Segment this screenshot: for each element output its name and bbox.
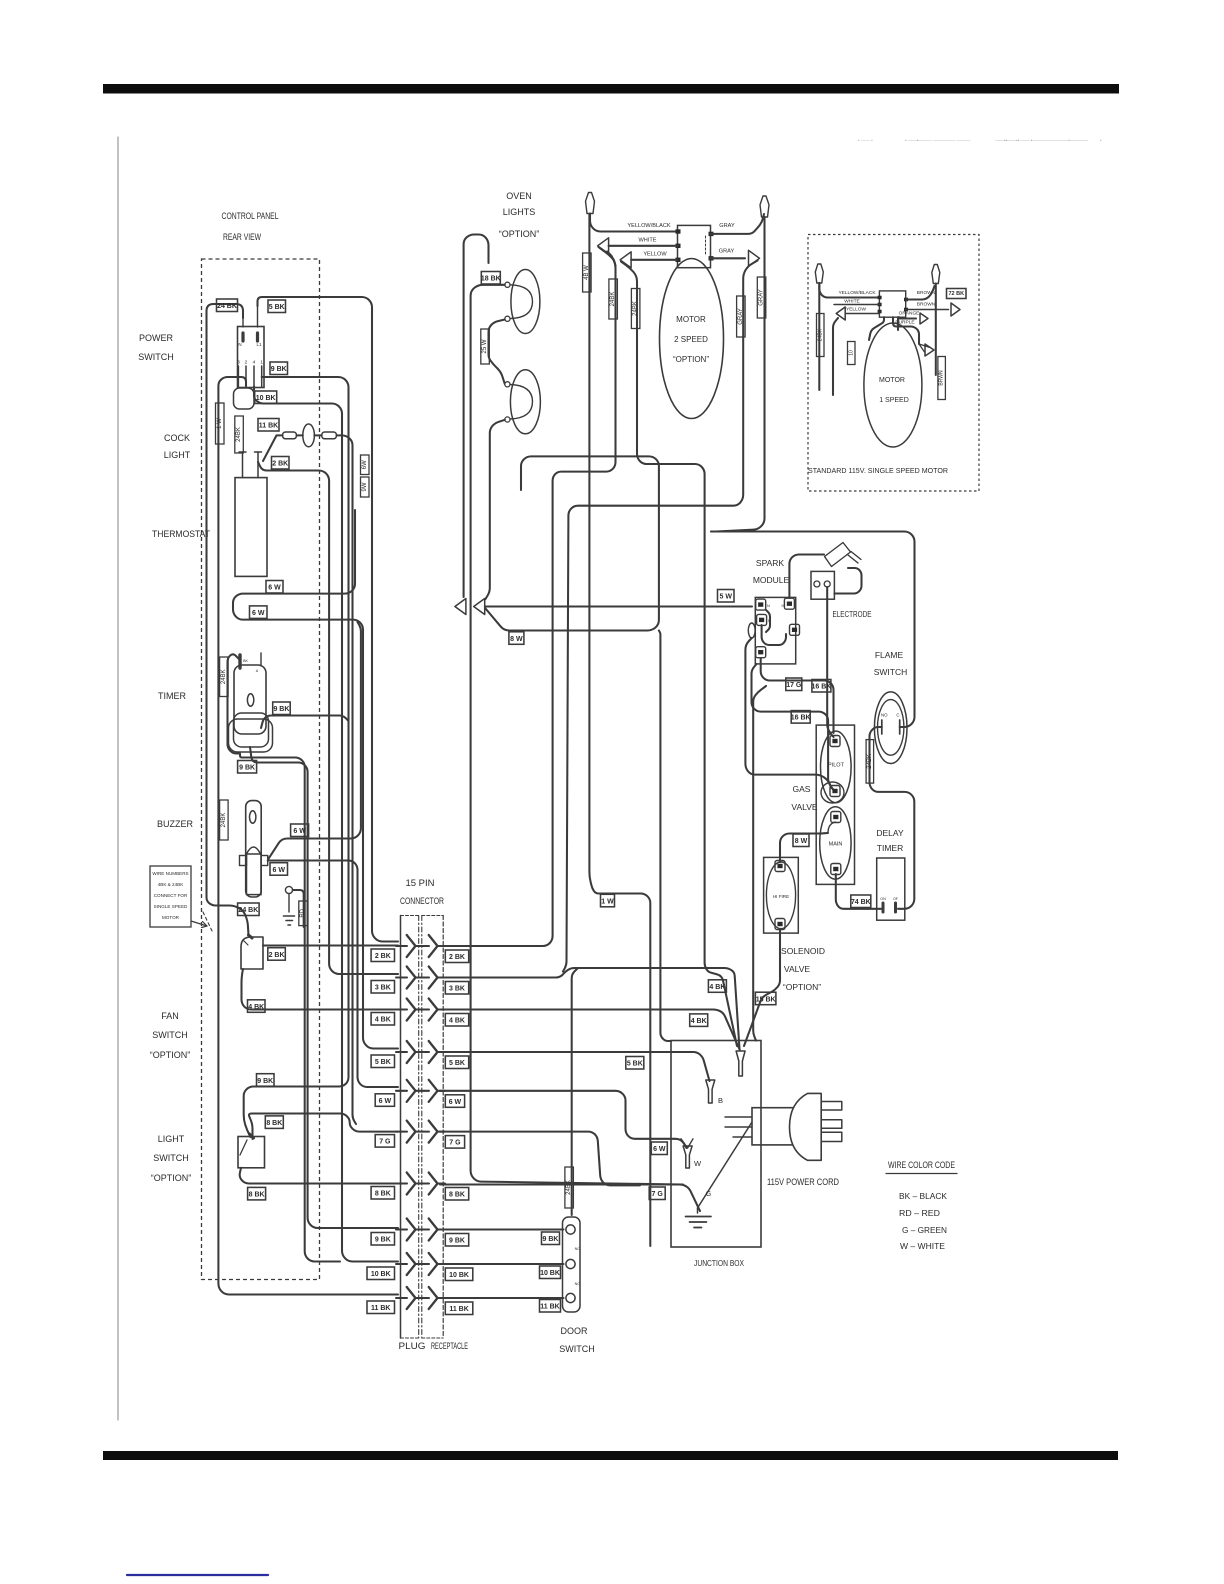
svg-text:1 W: 1 W — [217, 418, 223, 429]
electrode bracket — [834, 568, 861, 594]
label 74 BK — [851, 895, 871, 908]
connector arrow right — [474, 599, 485, 615]
wire 11BK recept — [440, 1297, 564, 1299]
electrode contacts — [814, 581, 830, 587]
svg-text:10 BK: 10 BK — [449, 1272, 469, 1279]
text BROWN m1 b — [917, 302, 936, 308]
plug body — [790, 1093, 822, 1160]
svg-text:11 BK: 11 BK — [371, 1305, 390, 1312]
svg-text:MOTOR: MOTOR — [676, 315, 706, 324]
text MOTOR 1 SPEED — [879, 377, 909, 404]
note box wire numbers 4BK and 24BK — [150, 866, 207, 928]
svg-text:7 G: 7 G — [379, 1139, 391, 1146]
label 17 G — [786, 678, 802, 691]
wire 3BK recept — [440, 968, 740, 1049]
connector arrow brown2 — [951, 303, 960, 316]
svg-text:L1: L1 — [256, 342, 262, 347]
buzzer lower body — [247, 854, 262, 895]
thermostat pin stubs — [239, 452, 262, 478]
text SPARK MODULE — [753, 558, 790, 585]
svg-text:FLAME: FLAME — [875, 650, 904, 660]
svg-text:BRWN: BRWN — [939, 370, 945, 386]
svg-text:10 BK: 10 BK — [256, 395, 276, 402]
svg-text:6 W: 6 W — [379, 1098, 392, 1105]
wire 11BK bus — [218, 377, 398, 1295]
wire yellow — [631, 259, 677, 261]
svg-text:2 BK: 2 BK — [272, 461, 288, 468]
wire spark left loop — [745, 638, 831, 788]
svg-text:9 BK: 9 BK — [239, 765, 255, 772]
motor1 terminals — [878, 296, 908, 314]
vlabel yellow drop — [631, 289, 640, 329]
delay timer pins — [880, 897, 898, 912]
svg-text:OVEN: OVEN — [506, 191, 532, 201]
text 115V POWER CORD — [767, 1177, 839, 1187]
svg-text:NO: NO — [881, 713, 888, 718]
cook light fuse left — [283, 432, 297, 439]
text GRAY top — [719, 223, 735, 229]
wire 9BK bus — [244, 377, 349, 1137]
svg-text:5 W: 5 W — [720, 594, 733, 601]
wire 9BK timer — [261, 716, 349, 729]
text YELLOW m1 — [846, 307, 866, 313]
vlabel cap gray — [757, 277, 766, 318]
svg-text:4 BK: 4 BK — [248, 1004, 264, 1011]
vlabel RD ground — [299, 901, 308, 926]
text BK BLACK — [899, 1191, 947, 1201]
ground lug wire — [293, 890, 304, 927]
plug prongs — [821, 1102, 842, 1142]
svg-text:7 G: 7 G — [449, 1140, 461, 1147]
wire white m1 — [834, 304, 879, 306]
connector arrow yellow — [620, 252, 631, 268]
svg-text:24BK: 24BK — [867, 754, 873, 769]
wire 6W thermostat — [233, 510, 398, 1049]
svg-text:VALVE: VALVE — [791, 802, 817, 812]
wire 8BK recept ground — [440, 1185, 700, 1212]
svg-text:24BK: 24BK — [236, 427, 242, 442]
ground symbol junction — [686, 1208, 712, 1228]
vlabel 24BK buzzer — [220, 800, 229, 840]
connector arrow orange — [920, 313, 928, 324]
wire yb m1 — [819, 283, 879, 298]
wire purple — [893, 317, 919, 344]
svg-text:15 PIN: 15 PIN — [405, 878, 434, 889]
motor2 inner dashed — [705, 236, 707, 256]
wire brown1 — [906, 286, 935, 300]
svg-text:8 W: 8 W — [510, 636, 523, 643]
pilot overlap coil — [821, 782, 844, 803]
svg-text:2 BK: 2 BK — [375, 953, 391, 960]
svg-text:GRAY: GRAY — [738, 308, 744, 325]
motor1 box leads — [869, 317, 898, 340]
wire white — [609, 245, 678, 247]
thermostat body — [235, 478, 267, 577]
wire timer bus D — [240, 754, 340, 1262]
svg-text:GRAY: GRAY — [759, 289, 765, 306]
buzzer tab left — [240, 856, 247, 866]
wire yellow m1 — [833, 314, 879, 396]
label 16 BK b — [791, 711, 811, 724]
label 6 W b — [250, 606, 268, 619]
label 18 BK — [481, 272, 501, 285]
svg-text:MOTOR: MOTOR — [162, 915, 180, 920]
svg-text:BROWN: BROWN — [917, 302, 936, 308]
fan switch body — [241, 937, 263, 969]
text FAN SWITCH OPTION — [150, 1011, 191, 1060]
timer knob — [247, 694, 253, 706]
text YELLOW — [643, 252, 667, 258]
spark terminal 4 — [782, 598, 795, 609]
cap connector m1 left — [815, 264, 823, 283]
wire W V-join — [681, 1139, 693, 1148]
connector pin chevrons — [407, 935, 438, 1309]
motor2 junction box — [678, 225, 711, 267]
text DELAY TIMER — [876, 828, 904, 853]
label 9 BK tray — [238, 761, 257, 774]
label 9 BK power — [270, 362, 288, 375]
main terminal top — [831, 812, 841, 823]
svg-text:ORANGE: ORANGE — [899, 311, 920, 317]
control panel dashed outline — [202, 259, 320, 1280]
svg-text:24BK: 24BK — [817, 328, 823, 341]
door switch contacts — [566, 1225, 580, 1303]
svg-text:N: N — [238, 342, 241, 347]
svg-text:2 BK: 2 BK — [449, 954, 465, 961]
hfire box — [764, 857, 799, 933]
motor2 terminals — [676, 229, 714, 262]
svg-text:1 SPEED: 1 SPEED — [879, 397, 909, 404]
svg-text:MAIN: MAIN — [829, 842, 843, 848]
svg-text:RECEPTACLE: RECEPTACLE — [431, 1341, 468, 1351]
wire spark HT — [789, 555, 824, 599]
timer tray outer — [229, 719, 273, 752]
wire gray bottom — [710, 257, 745, 259]
pilot terminal top — [830, 736, 840, 747]
lamp2 bottom wire — [486, 420, 505, 599]
svg-text:6 W: 6 W — [653, 1146, 666, 1153]
svg-text:COCK: COCK — [164, 433, 190, 443]
wire 74BK — [836, 874, 881, 909]
svg-text:6 W: 6 W — [252, 610, 265, 617]
svg-text:4BK & 24BK: 4BK & 24BK — [158, 882, 184, 887]
spark internal wires — [762, 610, 786, 645]
wire flame NO — [870, 727, 915, 909]
label 4 BK junc a — [708, 980, 726, 993]
connector arrow gray — [749, 250, 760, 266]
text PURPLE — [895, 320, 914, 326]
hfire terminal top — [775, 861, 785, 872]
label 1W mid — [601, 894, 615, 907]
wire white drop — [599, 247, 616, 266]
text WIRE COLOR CODE — [886, 1160, 957, 1174]
svg-text:B: B — [718, 1096, 723, 1105]
text JUNCTION BOX — [694, 1258, 744, 1268]
buzzer tab right — [261, 856, 268, 866]
svg-text:4 BK: 4 BK — [691, 1018, 707, 1025]
ground symbol fan — [284, 894, 295, 926]
svg-text:GAS: GAS — [793, 784, 811, 794]
svg-text:BK – BLACK: BK – BLACK — [899, 1191, 947, 1201]
svg-text:15 BK: 15 BK — [756, 996, 776, 1003]
svg-text:LIGHT: LIGHT — [164, 450, 191, 460]
text COCK LIGHT — [164, 433, 191, 460]
timer body — [234, 665, 266, 734]
svg-text:YELLOW/BLACK: YELLOW/BLACK — [838, 290, 876, 296]
flame switch outer — [874, 692, 907, 764]
svg-text:PLUG: PLUG — [399, 1341, 426, 1351]
lamp1 to lamp2 wire — [481, 320, 505, 385]
svg-text:24BK: 24BK — [221, 669, 227, 684]
hfire coil — [766, 862, 795, 929]
svg-text:17 G: 17 G — [786, 682, 802, 689]
svg-text:G: G — [706, 1191, 711, 1198]
svg-text:SOLENOID: SOLENOID — [781, 946, 825, 956]
flame switch poles — [882, 720, 900, 734]
connector arrow purple dn — [919, 344, 934, 356]
svg-text:• ——•——— ————— ———: • ——•——— ————— ——— — [905, 138, 971, 143]
svg-text:SINGLE SPEED: SINGLE SPEED — [154, 904, 188, 909]
vlabel 1 W — [216, 403, 225, 444]
svg-text:N: N — [767, 603, 770, 608]
text WHITE m1 — [844, 299, 859, 305]
svg-text:TIMER: TIMER — [158, 691, 186, 701]
wire 4BK recept — [440, 1010, 740, 1051]
wire brown2 — [906, 309, 949, 311]
vlabel flame — [866, 740, 874, 784]
svg-text:WIRE COLOR CODE: WIRE COLOR CODE — [888, 1160, 955, 1170]
svg-text:6 W: 6 W — [449, 1099, 462, 1106]
motor1 ellipse — [864, 323, 922, 447]
svg-text:9W: 9W — [362, 482, 368, 491]
svg-text:10 BK: 10 BK — [540, 1270, 560, 1277]
svg-text:VALVE: VALVE — [784, 964, 810, 974]
vlabel 24BK timer — [220, 657, 229, 697]
oven loop outer — [464, 235, 489, 598]
hfire terminal bottom — [775, 919, 785, 930]
text LIGHT SWITCH OPTION — [151, 1134, 192, 1183]
svg-text:WIRE NUMBERS: WIRE NUMBERS — [152, 871, 188, 876]
cord barrel — [752, 1108, 798, 1145]
vlabel gray drop — [737, 296, 746, 337]
svg-text:“OPTION”: “OPTION” — [673, 355, 709, 364]
wire yellow drop — [621, 262, 737, 1047]
svg-text:2: 2 — [245, 360, 248, 366]
terminal W bullet — [683, 1146, 702, 1168]
vlabel door BK — [565, 1167, 574, 1208]
label 7 G junc — [649, 1187, 665, 1200]
svg-text:3: 3 — [237, 360, 240, 366]
connector row labels — [367, 949, 473, 1315]
cook light wiring — [263, 435, 322, 461]
svg-text:BK: BK — [243, 659, 248, 663]
text W WHITE — [900, 1241, 945, 1251]
page top rule — [103, 84, 1119, 94]
power switch pin L1 — [256, 306, 262, 347]
label 4 BK fan — [248, 1000, 266, 1013]
electrode box — [811, 571, 834, 599]
junction box — [671, 1041, 761, 1248]
svg-text:CONTROL PANEL: CONTROL PANEL — [222, 211, 279, 221]
page left margin line — [117, 137, 119, 1420]
connector receptacle column — [422, 916, 443, 1339]
wire cap m1 drop — [818, 283, 820, 390]
svg-text:REAR VIEW: REAR VIEW — [223, 232, 261, 242]
wire 15BK — [744, 930, 780, 1046]
wire 10BK bus — [254, 387, 398, 1262]
connector row stubs — [396, 946, 445, 1298]
svg-text:SPARK: SPARK — [756, 558, 785, 568]
label 8 BK light — [265, 1116, 283, 1129]
text WHITE — [638, 238, 656, 244]
svg-text:RD – RED: RD – RED — [899, 1208, 940, 1218]
svg-text:“OPTION”: “OPTION” — [783, 982, 821, 992]
svg-text:DELAY: DELAY — [876, 828, 904, 838]
svg-text:5 BK: 5 BK — [269, 304, 285, 311]
svg-text:LIGHTS: LIGHTS — [503, 207, 536, 217]
wire 17G bus down — [753, 686, 766, 1041]
svg-text:8 BK: 8 BK — [375, 1191, 391, 1198]
cap connector gray — [760, 196, 769, 217]
svg-text:16 BK: 16 BK — [791, 715, 811, 722]
svg-text:H: H — [782, 603, 785, 608]
label 9 BK light sw — [257, 1074, 275, 1087]
svg-text:4 BK: 4 BK — [375, 1017, 391, 1024]
svg-text:• —— •: • —— • — [858, 138, 873, 143]
power switch pins 3 2 4 1 — [237, 360, 263, 387]
light switch body — [238, 1137, 265, 1168]
svg-text:CONNECTOR: CONNECTOR — [400, 896, 444, 907]
label 15 BK — [755, 992, 776, 1005]
svg-text:1: 1 — [260, 360, 263, 366]
buzzer body — [246, 801, 262, 897]
svg-text:G – GREEN: G – GREEN — [902, 1225, 947, 1235]
svg-text:YELLOW/BLACK: YELLOW/BLACK — [627, 223, 670, 229]
text SOLENOID VALVE OPTION — [781, 946, 825, 992]
svg-text:STANDARD 115V. SINGLE SPEED MO: STANDARD 115V. SINGLE SPEED MOTOR — [808, 466, 949, 475]
connector arrow white — [598, 238, 609, 254]
svg-text:WHITE: WHITE — [638, 238, 656, 244]
power switch pin N — [238, 318, 243, 347]
vlabel m1 mid — [848, 342, 856, 365]
svg-text:8 BK: 8 BK — [249, 1192, 265, 1199]
text POWER SWITCH — [138, 333, 174, 362]
svg-text:8 BK: 8 BK — [449, 1192, 465, 1199]
svg-text:6 W: 6 W — [273, 867, 286, 874]
motor2 lead left — [589, 214, 650, 1246]
svg-text:9 BK: 9 BK — [375, 1237, 391, 1244]
cook light fuse right — [322, 432, 337, 439]
svg-text:11 BK: 11 BK — [540, 1304, 559, 1311]
text MOTOR 2 SPEED OPTION — [673, 315, 709, 364]
label 5 W — [718, 590, 735, 603]
svg-text:2 SPEED: 2 SPEED — [674, 335, 708, 344]
text RD RED — [899, 1208, 940, 1218]
svg-text:24 BK: 24 BK — [217, 303, 237, 310]
svg-text:18 BK: 18 BK — [481, 276, 501, 283]
svg-text:POWER: POWER — [139, 333, 174, 343]
svg-text:9 BK: 9 BK — [449, 1238, 465, 1245]
svg-text:11 BK: 11 BK — [449, 1306, 468, 1313]
text BUZZER — [157, 819, 194, 829]
svg-text:HI FIRE: HI FIRE — [773, 894, 789, 899]
svg-text:3 BK: 3 BK — [449, 986, 465, 993]
timer tray inner — [234, 713, 269, 747]
svg-text:CONNECT FOR: CONNECT FOR — [154, 893, 188, 898]
wire 3BK cook light — [337, 435, 357, 1124]
wire yellow black — [590, 214, 679, 232]
label 24 BK — [217, 299, 238, 312]
label 8 W — [509, 632, 524, 645]
spark terminal 2 — [757, 614, 772, 625]
standard box dashed — [808, 235, 979, 492]
svg-text:6 W: 6 W — [268, 585, 281, 592]
wire 18BK lamp — [471, 285, 683, 1185]
wire 16BK second — [752, 664, 834, 790]
gas valve box — [816, 725, 854, 884]
svg-text:8 BK: 8 BK — [266, 1120, 282, 1127]
vlabel 6 W pair — [361, 455, 370, 497]
label 8 BK bot — [248, 1187, 266, 1200]
label 4 BK junc b — [690, 1014, 708, 1027]
faint header text — [858, 138, 1102, 143]
main coil — [820, 807, 851, 879]
label 11 BK — [258, 419, 279, 432]
cord links — [725, 1117, 752, 1137]
svg-text:“OPTION”: “OPTION” — [499, 229, 540, 239]
svg-text:WHITE: WHITE — [844, 299, 859, 305]
svg-text:SWITCH: SWITCH — [152, 1030, 188, 1040]
wire 10BK recept — [440, 1263, 564, 1265]
wire gray top — [710, 214, 764, 234]
label 5 BK — [268, 300, 286, 313]
svg-text:ON: ON — [880, 897, 886, 901]
cap connector m1 right — [932, 265, 940, 284]
label 16 BK a — [811, 680, 831, 693]
text 15 PIN CONNECTOR — [400, 878, 444, 907]
svg-text:9 BK: 9 BK — [257, 1078, 273, 1085]
svg-text:4 BK: 4 BK — [449, 1018, 465, 1025]
spark module box — [755, 597, 795, 664]
label 2 BK fan — [268, 948, 286, 961]
wire timer bus E — [250, 747, 398, 1228]
wire orange — [899, 317, 916, 318]
text PILOT — [828, 763, 845, 769]
svg-text:NO: NO — [575, 1282, 581, 1286]
oven lamp1 — [510, 270, 540, 334]
label 10 BK door — [540, 1266, 561, 1279]
svg-text:4: 4 — [253, 360, 256, 366]
label 6 W junc — [651, 1142, 667, 1155]
text MAIN — [829, 842, 843, 848]
label 5 BK far — [626, 1057, 644, 1070]
svg-text:74 BK: 74 BK — [851, 899, 871, 906]
text PLUG RECEPTACLE — [399, 1341, 469, 1351]
label 72 BK — [947, 289, 967, 299]
text FLAME SWITCH — [874, 650, 908, 677]
solenoid bullet — [736, 1051, 745, 1076]
label 6 W buzzer bot — [270, 863, 288, 876]
text ELECTRODE — [833, 609, 872, 619]
svg-text:“OPTION”: “OPTION” — [150, 1050, 191, 1060]
text ORANGE — [899, 311, 920, 317]
wire 5W spark — [485, 605, 752, 607]
wire 5BK bus — [258, 297, 399, 942]
ground lug circle — [285, 886, 292, 893]
wire 5BK recept — [440, 1052, 710, 1081]
flame switch labels — [881, 713, 900, 718]
svg-text:GRAY: GRAY — [719, 223, 735, 229]
